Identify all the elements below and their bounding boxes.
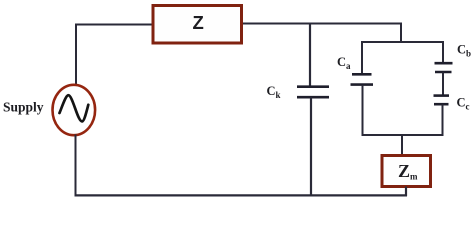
wire from supply top up bbox=[75, 24, 77, 86]
svg-text:Ck: Ck bbox=[267, 84, 281, 100]
capacitor Ck bbox=[297, 87, 329, 98]
wire bridge left branch lower bbox=[362, 85, 364, 136]
wire corner down to bridge top bbox=[400, 23, 402, 44]
svg-text:Cb: Cb bbox=[457, 43, 471, 59]
wire supply bottom down bbox=[75, 135, 77, 197]
wire bridge bottom to Zm bbox=[401, 135, 403, 156]
wire bridge left branch upper bbox=[361, 42, 363, 75]
svg-text:Supply: Supply bbox=[3, 100, 44, 115]
wire bridge right branch lower bbox=[442, 105, 444, 137]
wire bridge bottom rail bbox=[362, 134, 444, 136]
svg-text:Cc: Cc bbox=[457, 96, 470, 112]
wire junction down to Ck bbox=[309, 24, 311, 87]
svg-text:Ca: Ca bbox=[337, 55, 351, 71]
impedance box Zm bbox=[382, 156, 431, 187]
capacitor Ca bbox=[351, 74, 374, 84]
wire Zm down to bottom rail bbox=[405, 187, 407, 197]
svg-text:Z: Z bbox=[193, 12, 204, 33]
wire bridge right branch upper bbox=[442, 42, 444, 64]
impedance box Z bbox=[153, 6, 242, 44]
capacitor Cc bbox=[434, 96, 450, 105]
wire bottom rail bbox=[75, 194, 408, 196]
wire between Cb and Cc bbox=[442, 72, 444, 95]
wire Z box to corner junction bbox=[243, 23, 402, 25]
AC source supply bbox=[53, 85, 96, 135]
wire Ck down to bottom rail bbox=[310, 98, 312, 197]
wire supply top to Z box bbox=[75, 24, 152, 26]
wire bridge top rail bbox=[361, 41, 444, 43]
capacitor Cb bbox=[435, 63, 453, 72]
